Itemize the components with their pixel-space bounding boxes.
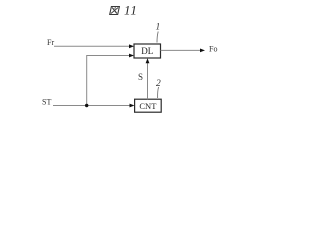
svg-text:Fo: Fo [209, 45, 217, 54]
svg-text:ST: ST [42, 98, 51, 107]
svg-text:Fr: Fr [47, 38, 54, 47]
svg-text:DL: DL [141, 46, 153, 56]
svg-text:11: 11 [124, 3, 138, 18]
svg-text:1: 1 [156, 23, 161, 33]
svg-text:CNT: CNT [139, 101, 157, 111]
svg-text:S: S [138, 72, 143, 82]
